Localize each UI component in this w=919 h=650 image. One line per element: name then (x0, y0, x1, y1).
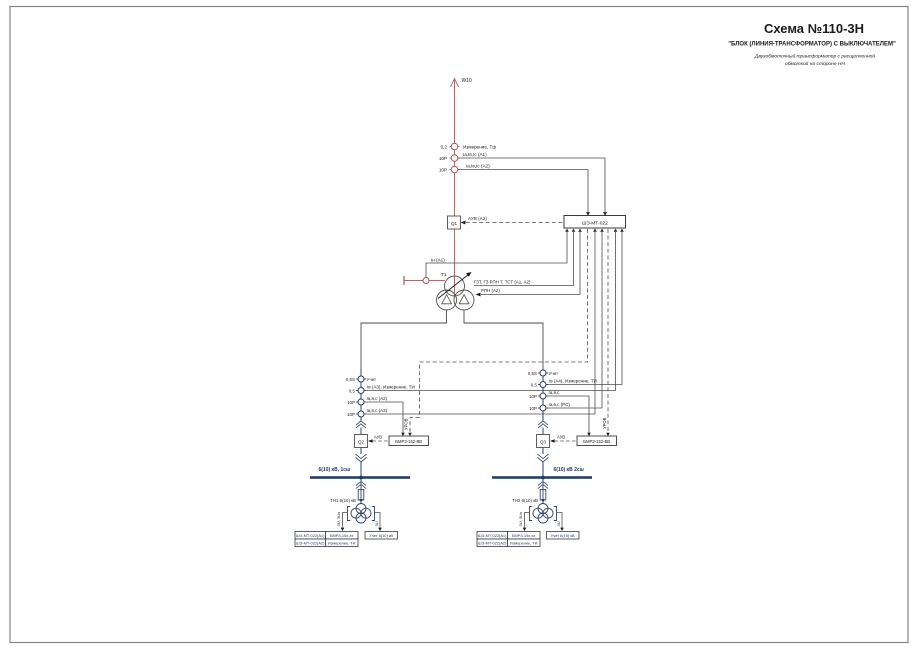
CT 1sec 10P upper (347, 396, 388, 405)
breaker Q2 (355, 435, 368, 448)
line W10 incoming feeder (red) (451, 78, 473, 296)
wire 2sec 10P upper to BMRZ-2 (546, 396, 589, 433)
svg-text:Учет 6(10) кВ: Учет 6(10) кВ (551, 533, 575, 538)
wire 2sec 0,5 to cabinet (546, 229, 622, 385)
svg-text:АУВ (А2): АУВ (А2) (468, 216, 487, 221)
svg-text:10Р: 10Р (439, 168, 447, 173)
control wire AUV (A2) to Q1 (dashed) (461, 216, 565, 224)
svg-text:Iн (А1): Iн (А1) (431, 258, 445, 263)
VT branch section 1 (330, 479, 366, 504)
svg-text:БМРЗ-152-ВВ: БМРЗ-152-ВВ (395, 439, 422, 444)
wire 1sec 0,5 to cabinet (364, 229, 615, 391)
LV winding leads to section feeders (361, 310, 447, 371)
svg-text:W10: W10 (462, 78, 473, 84)
svg-text:ШЭ-МТ-022(А1): ШЭ-МТ-022(А1) (296, 533, 325, 538)
CT 2sec 0,5 (531, 379, 597, 388)
relay BMRZ-2 (577, 433, 617, 446)
svg-text:0,5S: 0,5S (346, 377, 355, 382)
CT TA1 0,2 measurement (441, 143, 497, 150)
metering box section 1 (365, 532, 398, 540)
svg-text:10Р: 10Р (529, 394, 537, 399)
withdrawable contact above Q2 (356, 421, 366, 428)
control wire RPN (A2) to tap changer (476, 229, 581, 296)
busbar section 1 (310, 467, 410, 480)
CT 2sec 10P upper (529, 390, 560, 399)
svg-text:Iа,в,с: Iа,в,с (549, 390, 561, 395)
ground electrode (403, 276, 405, 285)
CT TA2 10P (439, 152, 487, 161)
svg-text:ТН1 6(10) кВ: ТН1 6(10) кВ (330, 498, 356, 503)
CT 2sec 10P lower (529, 402, 570, 411)
withdrawable contact above Q3 (538, 421, 548, 428)
wire 3U,3U0 to panels sec2 (518, 511, 529, 531)
svg-text:ШЭ-МТ-022: ШЭ-МТ-022 (582, 220, 608, 226)
svg-text:ШЭ-МТ-022(А1): ШЭ-МТ-022(А1) (478, 533, 507, 538)
svg-text:Измерение, ТИ: Измерение, ТИ (328, 541, 356, 546)
svg-text:АУВ: АУВ (557, 435, 565, 440)
svg-text:3U: 3U (556, 521, 561, 526)
withdrawable contact below Q2 (356, 454, 367, 462)
svg-text:АУВ: АУВ (374, 435, 382, 440)
svg-text:Т1: Т1 (441, 272, 447, 278)
svg-text:0,5S: 0,5S (528, 371, 537, 376)
svg-text:6(10) кВ, 1сш: 6(10) кВ, 1сш (319, 467, 351, 473)
voltage transformer TN1 (348, 504, 375, 524)
svg-text:Измерение, Тф: Измерение, Тф (463, 145, 496, 150)
svg-text:Измерение, ТИ: Измерение, ТИ (510, 541, 538, 546)
wire gas protection GZT, GZ RPN T, TST (A1, A2) (474, 229, 574, 286)
breaker Q1 (448, 216, 461, 229)
neutral grounding conductor (red) (404, 280, 445, 282)
CT TA3 10P (439, 164, 490, 173)
svg-text:Iа,Iв,Iс (А1): Iа,Iв,Iс (А1) (463, 152, 487, 157)
wire 3U to metering sec2 (556, 513, 564, 532)
svg-text:ШЭ-МТ-022(А2): ШЭ-МТ-022(А2) (296, 541, 325, 546)
control wire AUV to Q3 (dashed) (550, 435, 577, 443)
svg-text:РПН (А2): РПН (А2) (481, 288, 500, 293)
transformer T1 (437, 272, 475, 310)
svg-text:Iа,Iв,Iс (А2): Iа,Iв,Iс (А2) (466, 164, 490, 169)
svg-text:Q2: Q2 (358, 439, 365, 444)
svg-text:3U, 3Uо: 3U, 3Uо (518, 511, 523, 526)
svg-text:Схема №110-3Н: Схема №110-3Н (764, 21, 864, 36)
dashed control run to BMRZ-2 (UROV) (607, 229, 609, 433)
withdrawable contact below Q3 (538, 454, 549, 462)
CT 1sec 0,5S (346, 376, 376, 382)
wire 3U to metering (374, 513, 382, 532)
svg-text:0,2: 0,2 (441, 145, 448, 150)
panel boxes section 2 (477, 532, 540, 547)
svg-text:Iа,в,с (А2): Iа,в,с (А2) (367, 396, 388, 401)
schematic title (728, 21, 896, 67)
svg-text:БМРЗ-152-ВВ: БМРЗ-152-ВВ (583, 439, 610, 444)
panel boxes section 1 (295, 532, 358, 547)
svg-text:10Р: 10Р (347, 412, 355, 417)
wire 2sec 10P lower to cabinet (546, 229, 602, 408)
busbar section 2 (492, 467, 592, 480)
svg-text:"БЛОК (ЛИНИЯ-ТРАНСФОРМАТОР) С: "БЛОК (ЛИНИЯ-ТРАНСФОРМАТОР) С ВЫКЛЮЧАТЕЛ… (728, 41, 896, 47)
section 2 feeder (542, 369, 544, 421)
svg-text:Учет: Учет (367, 377, 377, 382)
svg-text:6(10) кВ 2сш: 6(10) кВ 2сш (554, 467, 584, 473)
svg-text:0,5: 0,5 (349, 389, 356, 394)
svg-text:ТН2 6(10) кВ: ТН2 6(10) кВ (512, 498, 538, 503)
svg-text:обмоткой на стороне НН: обмоткой на стороне НН (785, 60, 845, 67)
svg-text:Iа,в,с (РС): Iа,в,с (РС) (549, 402, 571, 407)
svg-text:Учет: Учет (549, 371, 559, 376)
svg-text:Двухобмоточный трансформатор с: Двухобмоточный трансформатор с расщеплен… (754, 53, 875, 60)
breaker Q3 (537, 435, 550, 448)
svg-text:ГЗТ, ГЗ РПН Т, ТСТ (А1, А2): ГЗТ, ГЗ РПН Т, ТСТ (А1, А2) (474, 280, 531, 285)
svg-text:Q1: Q1 (451, 221, 458, 226)
svg-text:УРОВ: УРОВ (602, 417, 607, 429)
svg-text:БМРЗ-15х-хх: БМРЗ-15х-хх (330, 533, 353, 538)
section 1 feeder (360, 369, 362, 421)
CT 2sec 0,5S (528, 370, 558, 376)
wire 3U,3U0 to panels (336, 511, 347, 531)
CT 1sec 0,5 (349, 385, 415, 394)
svg-text:Q3: Q3 (540, 439, 547, 444)
CT 1sec 10P lower (347, 408, 388, 417)
wire 1sec 10P lower to cabinet (364, 229, 595, 414)
svg-text:Iв (А4), Измерение, ТИ: Iв (А4), Измерение, ТИ (549, 379, 597, 384)
svg-text:БМРЗ-15х-хх: БМРЗ-15х-хх (512, 533, 535, 538)
VT branch section 2 (512, 479, 548, 504)
svg-text:Учет 6(10) кВ: Учет 6(10) кВ (369, 533, 393, 538)
svg-text:УРОВ: УРОВ (404, 418, 409, 430)
svg-text:10Р: 10Р (347, 400, 355, 405)
relay cabinet U1 ШЭ-МТ-022 (564, 212, 626, 231)
control wire AUV to Q2 (dashed) (368, 435, 389, 443)
wire In (A1) to relay cabinet (426, 229, 567, 278)
svg-text:ШЭ-МТ-022(А2): ШЭ-МТ-022(А2) (478, 541, 507, 546)
svg-text:10Р: 10Р (529, 406, 537, 411)
wire CT TA3 to relay cabinet (458, 170, 588, 217)
neutral CT (423, 278, 429, 284)
wire 1sec 10P upper to BMRZ-1 (364, 402, 403, 433)
svg-text:Iа,в,с (А3): Iа,в,с (А3) (367, 408, 388, 413)
svg-text:0,5: 0,5 (531, 383, 538, 388)
svg-text:3U, 3Uо: 3U, 3Uо (336, 511, 341, 526)
metering box section 2 (547, 532, 580, 540)
dashed control run to BMRZ-1 (410, 229, 588, 433)
relay BMRZ-1 (389, 433, 429, 446)
svg-text:Iв (А3), Измерение, ТИ: Iв (А3), Измерение, ТИ (367, 385, 415, 390)
svg-text:3U: 3U (374, 521, 379, 526)
svg-text:10Р: 10Р (439, 156, 447, 161)
wire CT TA2 to relay cabinet (458, 158, 605, 216)
voltage transformer TN2 (530, 504, 557, 524)
